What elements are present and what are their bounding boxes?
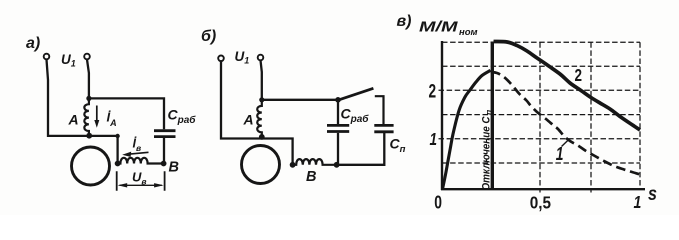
y axis: [441, 41, 443, 190]
capacitor C_p plates (panel b): [374, 125, 393, 131]
svg-text:В: В: [169, 160, 179, 176]
node: left of winding B (panel a): [115, 161, 121, 167]
switch fixed contact (panel b): [375, 96, 384, 125]
svg-text:М/М: М/М: [419, 20, 459, 36]
wire: top horizontal to switch (panel b): [262, 99, 338, 101]
node B (panel a): [161, 161, 167, 167]
switching-off vertical line: [491, 42, 494, 190]
current arrow I_B pointing left (panel a): [129, 152, 149, 154]
grid vertical dashed lines: [540, 42, 640, 192]
svg-text:ном: ном: [459, 27, 478, 38]
rotated label Otklyuchenie C_p: [481, 109, 494, 191]
wire: C_rab top lead (panel b): [337, 100, 339, 125]
svg-text:А: А: [68, 112, 79, 128]
node: switch junction (panel b): [335, 97, 341, 103]
svg-text:s: s: [648, 183, 657, 205]
svg-text:1: 1: [556, 144, 564, 164]
capacitor C_rab plates (panel b): [327, 125, 349, 131]
node: left of winding B (panel b): [290, 162, 296, 168]
svg-text:п: п: [484, 109, 494, 115]
wire: to capacitor branch (panel a): [89, 98, 164, 129]
svg-text:а): а): [26, 35, 40, 52]
winding B coil (panel a): [118, 158, 164, 164]
winding B coil (panel b): [293, 159, 337, 165]
wire: capacitor to node B (panel a): [163, 138, 165, 164]
node: bottom of winding A (panel a): [86, 133, 92, 139]
terminal left (panel a): [44, 54, 50, 60]
curve 2 (solid, run characteristic): [494, 42, 641, 131]
svg-text:2: 2: [575, 66, 583, 85]
node: bottom of winding A (panel b): [259, 134, 265, 140]
svg-text:0,5: 0,5: [530, 192, 551, 212]
starting portion curve (solid, rises from origin): [443, 70, 491, 189]
terminal right (panel b): [258, 55, 264, 61]
switch blade (panel b): [338, 88, 374, 100]
terminal left (panel b): [218, 56, 224, 62]
wire: bottom right to C_p (panel b): [337, 133, 385, 165]
node: bottom of C_rab (panel b): [334, 162, 340, 168]
wire: left supply down and along bottom (panel a): [47, 60, 118, 164]
wire: right supply down to node (panel a): [87, 60, 89, 99]
leader line for label 1: [562, 140, 569, 146]
svg-text:В: В: [306, 169, 316, 185]
terminal right (panel a): [84, 54, 90, 60]
current arrow I_A (panel a): [96, 106, 98, 122]
svg-text:1: 1: [430, 130, 438, 149]
capacitor C_rab plates (panel a): [154, 131, 176, 137]
node: top of winding A (panel a): [86, 96, 91, 101]
dimension ticks U_B (panel a): [117, 171, 165, 191]
curve 1 (dashed, after C_p switched off from start curve): [491, 72, 641, 175]
wire: C_rab bottom lead (panel b): [337, 133, 339, 165]
wire: left supply down and along bottom (panel b): [221, 61, 293, 165]
x axis: [441, 188, 645, 190]
grid horizontal dashed lines: [439, 42, 641, 163]
wire: right supply down (panel b): [261, 60, 262, 100]
svg-text:Отключение С: Отключение С: [481, 116, 493, 191]
node: top of winding A (panel b): [259, 97, 264, 102]
winding A coil (panel a): [84, 98, 89, 135]
dimension arrows U_B (panel a): [120, 184, 162, 186]
winding A coil (panel b): [257, 100, 262, 139]
svg-text:1: 1: [634, 192, 642, 212]
svg-text:0: 0: [434, 192, 442, 212]
node: corner upper (panel a): [115, 134, 119, 138]
svg-text:А: А: [243, 112, 254, 128]
svg-text:2: 2: [429, 80, 437, 102]
svg-text:б): б): [201, 28, 216, 45]
svg-text:в): в): [397, 13, 412, 30]
motor rotor circle (panel a): [72, 147, 110, 185]
motor rotor circle (panel b): [242, 146, 280, 184]
